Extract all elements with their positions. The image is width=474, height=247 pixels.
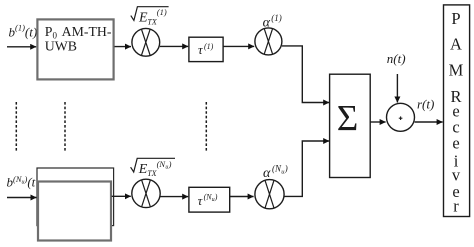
node b1 input label b^(1)(t) xyxy=(9,23,38,40)
wire delay to mixer A1 xyxy=(223,45,254,47)
svg-text:P: P xyxy=(451,9,460,28)
stacked block back box xyxy=(37,168,114,226)
svg-text:(1): (1) xyxy=(157,7,167,17)
wire n(t) down into adder xyxy=(396,74,398,103)
block P0 AM-TH-UWB xyxy=(37,19,113,79)
adder (circle with +) xyxy=(387,103,415,131)
block PAM Receiver xyxy=(444,5,470,217)
mixer A2 (circle with X) xyxy=(255,180,284,209)
svg-text:A: A xyxy=(450,35,462,54)
svg-text:n(t): n(t) xyxy=(387,51,406,66)
svg-text:M: M xyxy=(449,61,464,80)
wire block to mixer M1 xyxy=(115,46,132,48)
svg-text:): ) xyxy=(168,159,172,169)
mixer M2 (circle with X) xyxy=(132,179,160,207)
svg-text:e: e xyxy=(452,134,459,153)
svg-text:TX: TX xyxy=(147,169,157,178)
wire mixer A2 elbow up into summer xyxy=(284,141,329,196)
ellipsis dotted line 2 xyxy=(64,102,66,151)
delay block tau^(1) xyxy=(189,37,223,61)
svg-text:UWB: UWB xyxy=(45,39,77,54)
svg-text:α: α xyxy=(263,166,271,181)
ellipsis dotted line 1 xyxy=(15,102,17,151)
wire mixer A1 elbow down into summer xyxy=(282,46,329,103)
label alpha^(1) xyxy=(263,13,282,31)
svg-text:TX: TX xyxy=(147,18,157,27)
svg-text:(1): (1) xyxy=(204,42,214,51)
ellipsis dotted line 3 xyxy=(205,102,207,151)
wire input arrow to stacked block xyxy=(7,197,36,199)
label sqrt(E_TX^(1)) xyxy=(131,7,169,27)
svg-text:Σ: Σ xyxy=(337,99,359,140)
wire summer to adder xyxy=(370,121,385,123)
wire stacked block to mixer M2 xyxy=(112,195,131,197)
mixer A1 (circle with X) xyxy=(255,28,282,55)
wire adder to receiver xyxy=(415,121,443,123)
svg-text:(1): (1) xyxy=(271,13,282,23)
label sqrt(E_TX^(Nu)) xyxy=(131,158,175,178)
svg-text:r: r xyxy=(453,197,459,216)
wire delay 2 to mixer A2 xyxy=(230,196,254,198)
delay block tau^(Nu) xyxy=(189,187,230,212)
mixer M1 (circle with X) xyxy=(132,28,160,56)
wire input arrow to AM-TH-UWB block xyxy=(7,46,36,48)
stacked block front box xyxy=(38,182,111,241)
wire mixer M2 to delay block 2 xyxy=(160,196,188,198)
summer block Sigma xyxy=(330,74,371,177)
svg-text:r(t): r(t) xyxy=(417,97,434,112)
label alpha^(Nu) xyxy=(263,163,288,180)
node bNu input label b^(Nu)(t xyxy=(7,174,36,190)
svg-text:): ) xyxy=(284,163,288,173)
wire mixer M1 to delay block xyxy=(160,45,188,47)
svg-text:): ) xyxy=(214,193,218,202)
